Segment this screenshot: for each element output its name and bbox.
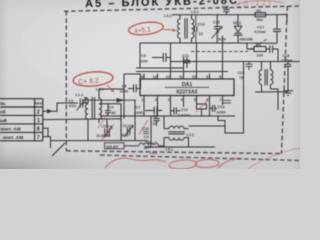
svg-text:L5.1: L5.1 xyxy=(166,148,174,152)
svg-text:С16: С16 xyxy=(222,5,229,9)
svg-text:2200: 2200 xyxy=(120,88,130,93)
svg-text:3: 3 xyxy=(168,98,170,102)
svg-text:С18: С18 xyxy=(283,54,290,58)
svg-text:VD1: VD1 xyxy=(233,21,242,26)
svg-text:L1.2: L1.2 xyxy=(96,87,105,92)
svg-text:2200: 2200 xyxy=(139,59,149,64)
svg-text:пь: пь xyxy=(0,101,6,106)
svg-text:С15: С15 xyxy=(213,21,220,25)
svg-text:75: 75 xyxy=(216,30,220,34)
svg-text:0,047мк: 0,047мк xyxy=(178,113,191,117)
svg-text:С4: С4 xyxy=(109,104,115,109)
svg-text:2: 2 xyxy=(155,98,157,102)
svg-text:120: 120 xyxy=(257,52,264,57)
svg-text:L3.1: L3.1 xyxy=(164,13,173,18)
svg-text:С2.3: С2.3 xyxy=(123,124,131,128)
svg-text:Д/47: Д/47 xyxy=(144,145,152,149)
svg-text:13: 13 xyxy=(153,75,157,79)
svg-text:2200: 2200 xyxy=(217,110,227,115)
svg-text:С11: С11 xyxy=(182,53,190,58)
svg-text:11: 11 xyxy=(179,75,183,79)
svg-text:С9: С9 xyxy=(141,53,147,58)
svg-text:8: 8 xyxy=(37,126,40,132)
svg-text:С7: С7 xyxy=(136,104,141,109)
svg-text:5: 5 xyxy=(194,98,196,102)
svg-text:1: 1 xyxy=(141,98,143,102)
svg-text:Конт: Конт xyxy=(35,102,43,106)
svg-text:56к: 56к xyxy=(257,17,263,22)
svg-text:2200: 2200 xyxy=(134,110,144,115)
svg-text:ый: ый xyxy=(0,117,7,123)
svg-text:С10: С10 xyxy=(181,108,188,112)
svg-text:R2: R2 xyxy=(256,43,261,47)
svg-text:1,5: 1,5 xyxy=(144,135,149,139)
svg-text:ЦК6: ЦК6 xyxy=(145,140,152,144)
svg-text:С13: С13 xyxy=(198,22,206,27)
svg-text:2/7: 2/7 xyxy=(153,122,158,126)
svg-text:конт. АМ: конт. АМ xyxy=(3,135,23,141)
svg-text:5/20: 5/20 xyxy=(218,37,227,42)
svg-text:С8: С8 xyxy=(153,114,158,118)
svg-text:5/10: 5/10 xyxy=(122,134,129,138)
svg-text:R1: R1 xyxy=(257,9,262,13)
svg-text:С12: С12 xyxy=(218,104,226,109)
svg-text:С1: С1 xyxy=(69,98,75,103)
svg-text:7: 7 xyxy=(219,98,221,102)
svg-text:С2.2: С2.2 xyxy=(102,125,110,129)
svg-text:1: 1 xyxy=(37,118,40,124)
svg-text:L3.2: L3.2 xyxy=(191,9,200,14)
svg-text:2: 2 xyxy=(37,109,40,115)
svg-text:8: 8 xyxy=(219,75,221,79)
svg-text:L2.2: L2.2 xyxy=(187,133,195,137)
svg-text:С17: С17 xyxy=(257,25,264,30)
svg-text:L1.1: L1.1 xyxy=(76,92,85,97)
svg-text:об: об xyxy=(0,108,6,114)
svg-text:конт. АМ: конт. АМ xyxy=(1,127,21,133)
svg-text:DA1: DA1 xyxy=(182,82,192,88)
svg-text:12: 12 xyxy=(166,75,170,79)
svg-text:4/12: 4/12 xyxy=(69,103,77,108)
svg-text:ЦК6 Д47: ЦК6 Д47 xyxy=(106,145,119,149)
svg-text:(Л-12): (Л-12) xyxy=(238,0,273,8)
svg-text:75: 75 xyxy=(239,76,243,80)
svg-text:0,05мк: 0,05мк xyxy=(282,59,293,63)
svg-text:9: 9 xyxy=(206,75,208,79)
svg-text:7: 7 xyxy=(37,135,40,141)
svg-text:0,01мк: 0,01мк xyxy=(255,30,266,34)
svg-text:22: 22 xyxy=(199,31,204,36)
svg-text:К237ХА5: К237ХА5 xyxy=(176,90,197,96)
svg-text:КВ109Б: КВ109Б xyxy=(240,37,254,41)
svg-text:10,5/228: 10,5/228 xyxy=(96,134,110,138)
svg-text:10: 10 xyxy=(192,75,196,79)
svg-text:L5.1: L5.1 xyxy=(150,151,157,155)
